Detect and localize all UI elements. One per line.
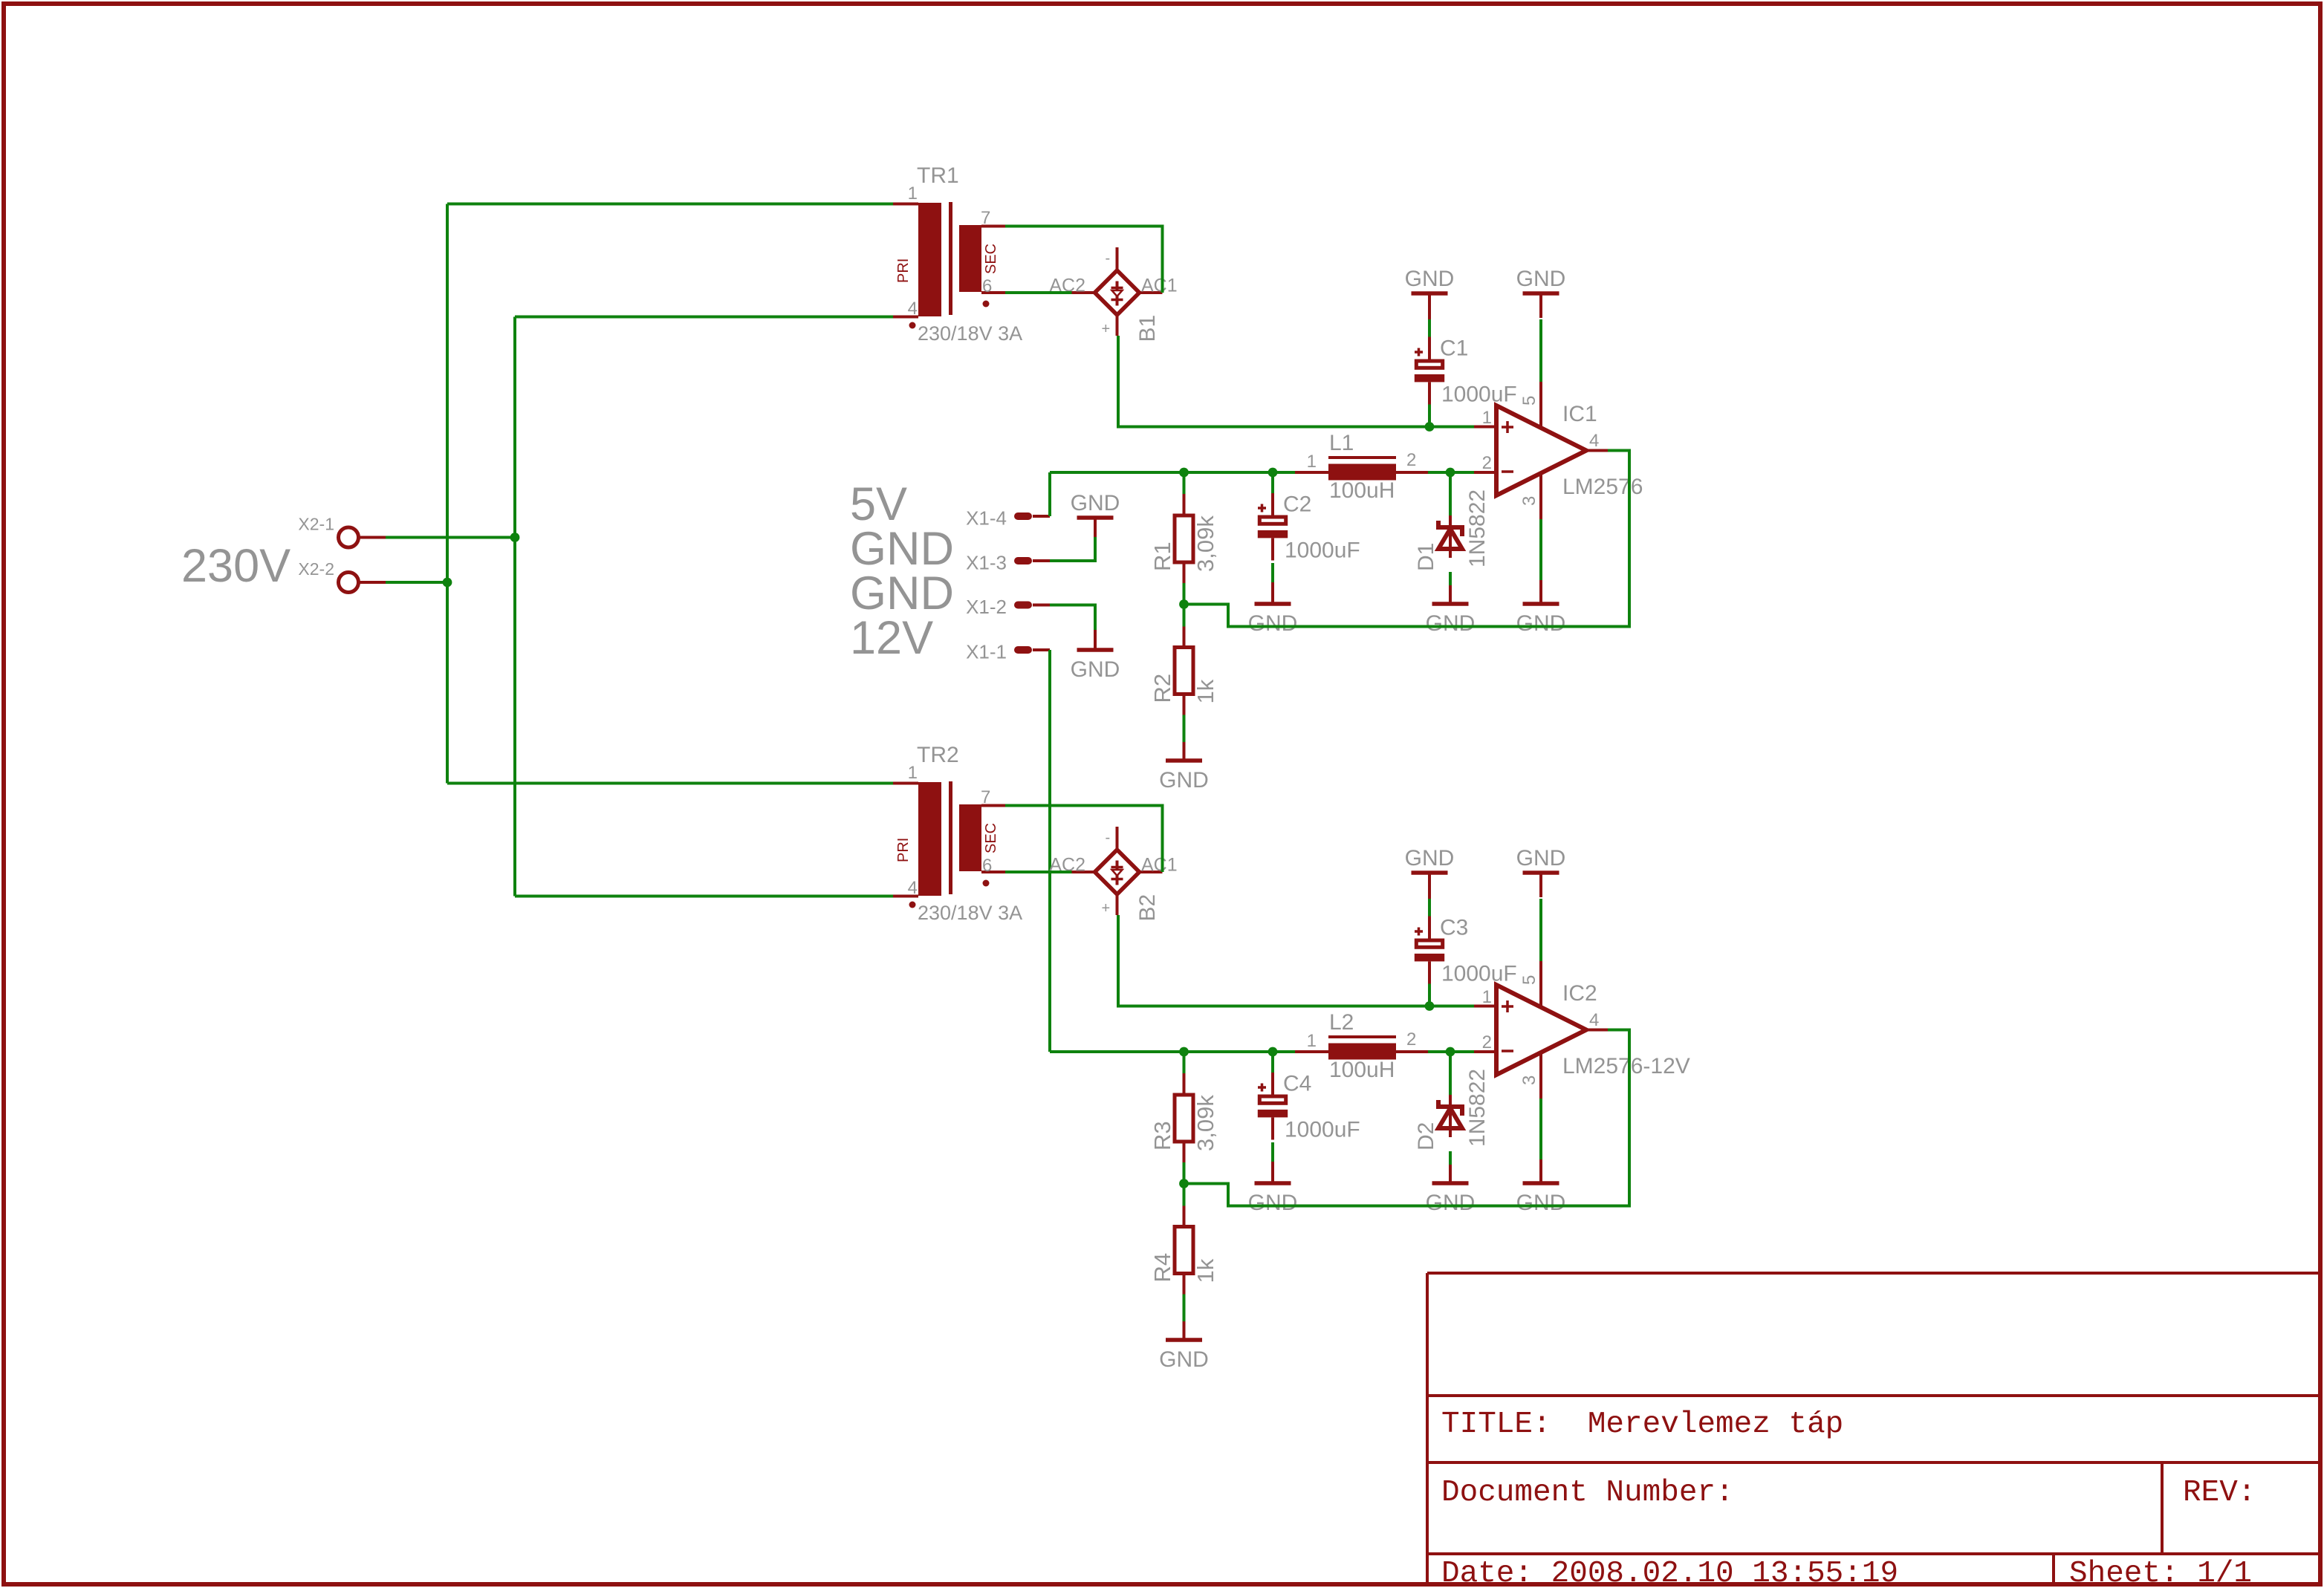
svg-text:5: 5 [1519,396,1539,406]
svg-text:TITLE: Merevlemez táp: TITLE: Merevlemez táp [1441,1408,1843,1442]
svg-text:3,09k: 3,09k [1192,1095,1218,1151]
connector pin X1-2 [966,596,1050,618]
wire [447,782,893,785]
node output cap node (junction) [1268,468,1278,478]
svg-text:GND: GND [1405,846,1455,871]
svg-text:PRI: PRI [895,258,912,283]
svg-text:2: 2 [1482,453,1492,473]
svg-text:6: 6 [982,276,992,296]
svg-text:Document Number:: Document Number: [1441,1476,1734,1510]
svg-text:LM2576-12V: LM2576-12V [1562,1054,1690,1078]
wire [1183,1184,1186,1322]
svg-text:B2: B2 [1135,894,1160,922]
wire [1048,650,1051,1052]
svg-text:230/18V 3A: 230/18V 3A [918,322,1022,345]
wire [1005,291,1072,294]
svg-text:LM2576: LM2576 [1562,475,1643,499]
svg-text:GND: GND [1071,657,1120,682]
ground above C3 [1405,846,1455,899]
regulator IC IC2 (LM2576-12V) [1474,961,1690,1099]
svg-text:X2-2: X2-2 [298,559,334,579]
svg-text:X1-1: X1-1 [966,641,1007,663]
bridge rectifier B2 [1049,827,1177,922]
svg-text:GND: GND [1426,1191,1476,1215]
svg-text:X2-1: X2-1 [298,515,334,534]
svg-text:GND: GND [1516,846,1566,871]
svg-text:X1-2: X1-2 [966,596,1007,618]
svg-text:3,09k: 3,09k [1192,515,1218,572]
ground above IC pin5 [1516,267,1566,318]
wire [1539,1099,1542,1159]
wire [1539,519,1542,580]
ground below R2/R4 [1159,1321,1209,1372]
svg-text:C4: C4 [1283,1072,1311,1096]
capacitor C1 (polarized, 1000uF) [1415,336,1517,407]
title block frame [1427,1273,2320,1583]
bridge rectifier B1 [1049,247,1177,342]
svg-text:7: 7 [981,208,990,228]
svg-text:2: 2 [1406,1029,1416,1050]
wire [515,316,893,319]
svg-text:GND: GND [1248,611,1298,636]
svg-text:1000uF: 1000uF [1285,1118,1360,1142]
ground above IC pin5 [1516,846,1566,897]
wire [1050,1050,1295,1053]
svg-text:GND: GND [1516,267,1566,291]
ground below C2/C4 [1248,582,1298,636]
diode D1 (schottky 1N5822) [1414,489,1490,571]
svg-text:4: 4 [908,299,918,319]
svg-text:R1: R1 [1149,541,1175,571]
svg-text:C2: C2 [1283,492,1311,517]
node divider mid (junction) [1179,1179,1189,1188]
svg-text:D2: D2 [1414,1122,1438,1151]
resistor R2 (1k) [1149,626,1218,715]
wire [1005,227,1163,293]
wire [1428,1050,1474,1053]
svg-text:L1: L1 [1329,431,1354,455]
node catch diode node (junction) [1446,1047,1455,1057]
ground above C1 [1405,267,1455,319]
node catch diode node (junction) [1446,468,1455,478]
wire [1449,1052,1452,1165]
wire [1271,472,1274,582]
svg-text:1k: 1k [1192,1258,1218,1283]
connector pin X1-4 [966,507,1050,530]
svg-text:R4: R4 [1149,1253,1175,1283]
wire [1428,899,1431,1006]
svg-text:4: 4 [1589,1010,1599,1030]
inductor L1 (100uH) [1295,431,1428,503]
wire [1449,472,1452,585]
wire [1428,319,1431,427]
node X2-1 net (junction) [510,533,520,542]
svg-text:1: 1 [908,183,918,204]
ground below IC pin3 [1516,580,1566,636]
ground below C2/C4 [1248,1162,1298,1215]
ground below R2/R4 [1159,742,1209,793]
svg-text:1000uF: 1000uF [1441,383,1517,407]
transformer TR1 [893,163,1022,345]
svg-text:X1-3: X1-3 [966,552,1007,574]
ground at X1-2 [1071,630,1120,682]
resistor R4 (1k) [1149,1205,1218,1295]
wire [386,536,515,539]
svg-text:AC1: AC1 [1141,276,1178,296]
diode D2 (schottky 1N5822) [1414,1069,1490,1151]
svg-text:1k: 1k [1192,679,1218,703]
regulator IC IC1 (LM2576) [1474,382,1643,519]
svg-text:1000uF: 1000uF [1285,538,1360,563]
wire [1050,537,1095,561]
svg-text:1: 1 [1307,452,1317,472]
svg-text:X1-4: X1-4 [966,507,1007,530]
svg-text:3: 3 [1519,496,1539,506]
capacitor C4 (polarized, 1000uF) [1258,1072,1360,1142]
svg-text:R3: R3 [1149,1121,1175,1151]
svg-text:7: 7 [981,787,990,807]
svg-text:GND: GND [1159,768,1209,793]
svg-text:IC2: IC2 [1562,981,1597,1006]
svg-text:Date: 2008.02.10 13:55:19: Date: 2008.02.10 13:55:19 [1441,1557,1898,1588]
ground below D1/D2 [1426,585,1476,636]
wire [1118,915,1474,1006]
wire [1539,319,1542,382]
svg-text:IC1: IC1 [1562,402,1597,426]
svg-text:-: - [1106,830,1111,846]
ground below IC pin3 [1516,1159,1566,1215]
wire [1183,605,1186,743]
svg-text:TR1: TR1 [917,163,959,188]
svg-text:REV:: REV: [2183,1476,2256,1510]
node X2-2 net (junction) [443,578,452,588]
wire [1048,472,1051,516]
svg-text:100uH: 100uH [1329,478,1395,503]
svg-text:100uH: 100uH [1329,1058,1395,1082]
resistor R1 (3,09k) [1149,494,1218,583]
wire [1428,471,1474,474]
node output cap node (junction) [1268,1047,1278,1057]
wire [1118,336,1474,427]
svg-text:R2: R2 [1149,674,1175,703]
svg-text:Sheet: 1/1: Sheet: 1/1 [2069,1557,2252,1588]
node divider mid (junction) [1179,599,1189,609]
svg-text:1: 1 [908,763,918,783]
node feedback divider top (junction) [1179,468,1189,478]
svg-text:-: - [1106,250,1111,267]
svg-text:+: + [1102,321,1111,337]
wire [1050,471,1295,474]
svg-text:1N5822: 1N5822 [1465,1069,1490,1147]
ground at X1-3 [1071,491,1120,537]
wire [386,581,447,584]
svg-text:1: 1 [1482,408,1492,428]
svg-text:D1: D1 [1414,543,1438,571]
svg-text:1: 1 [1482,987,1492,1007]
svg-text:230V: 230V [181,540,290,592]
svg-text:C1: C1 [1440,336,1468,361]
svg-text:GND: GND [1516,1191,1566,1215]
wire [1183,472,1186,605]
wire [447,203,893,206]
ground below D1/D2 [1426,1165,1476,1215]
svg-text:4: 4 [908,878,918,898]
svg-text:12V: 12V [850,612,933,664]
svg-text:3: 3 [1519,1076,1539,1085]
svg-text:L2: L2 [1329,1010,1354,1035]
svg-text:6: 6 [982,856,992,876]
svg-text:GND: GND [1426,611,1476,636]
wire [1539,899,1542,961]
wire [446,204,449,784]
svg-text:2: 2 [1406,450,1416,470]
connector pin X1-1 [966,641,1050,663]
svg-text:SEC: SEC [983,244,999,274]
capacitor C2 (polarized, 1000uF) [1258,492,1360,563]
inductor L2 (100uH) [1295,1010,1428,1082]
svg-text:2: 2 [1482,1032,1492,1052]
node rectified rail (junction) [1425,1001,1435,1011]
wire [1184,1030,1630,1206]
connector pin X1-3 [966,552,1050,574]
wire [1271,1052,1274,1162]
svg-text:+: + [1102,900,1111,917]
svg-text:GND: GND [1248,1191,1298,1215]
wire [1050,605,1095,631]
svg-text:GND: GND [1405,267,1455,291]
svg-text:TR2: TR2 [917,743,959,767]
svg-text:GND: GND [1516,611,1566,636]
svg-text:1: 1 [1307,1031,1317,1051]
wire [1005,871,1072,873]
connector pin X2-1 [298,515,386,548]
wire [1005,806,1163,873]
svg-text:GND: GND [1159,1347,1209,1372]
svg-text:1N5822: 1N5822 [1465,489,1490,567]
resistor R3 (3,09k) [1149,1073,1218,1162]
node rectified rail (junction) [1425,422,1435,432]
connector pin X2-2 [298,559,386,593]
svg-text:4: 4 [1589,431,1599,451]
svg-text:230/18V 3A: 230/18V 3A [918,902,1022,924]
wire [1184,451,1630,627]
svg-text:PRI: PRI [895,838,912,862]
svg-text:C3: C3 [1440,916,1468,940]
node feedback divider top (junction) [1179,1047,1189,1057]
svg-text:1000uF: 1000uF [1441,962,1517,986]
svg-text:5: 5 [1519,975,1539,985]
wire [513,317,516,896]
transformer TR2 [893,743,1022,924]
svg-text:AC1: AC1 [1141,855,1178,876]
svg-text:B1: B1 [1135,315,1160,342]
svg-text:GND: GND [1071,491,1120,515]
capacitor C3 (polarized, 1000uF) [1415,916,1517,986]
wire [515,895,893,898]
svg-text:SEC: SEC [983,823,999,853]
wire [1183,1052,1186,1184]
